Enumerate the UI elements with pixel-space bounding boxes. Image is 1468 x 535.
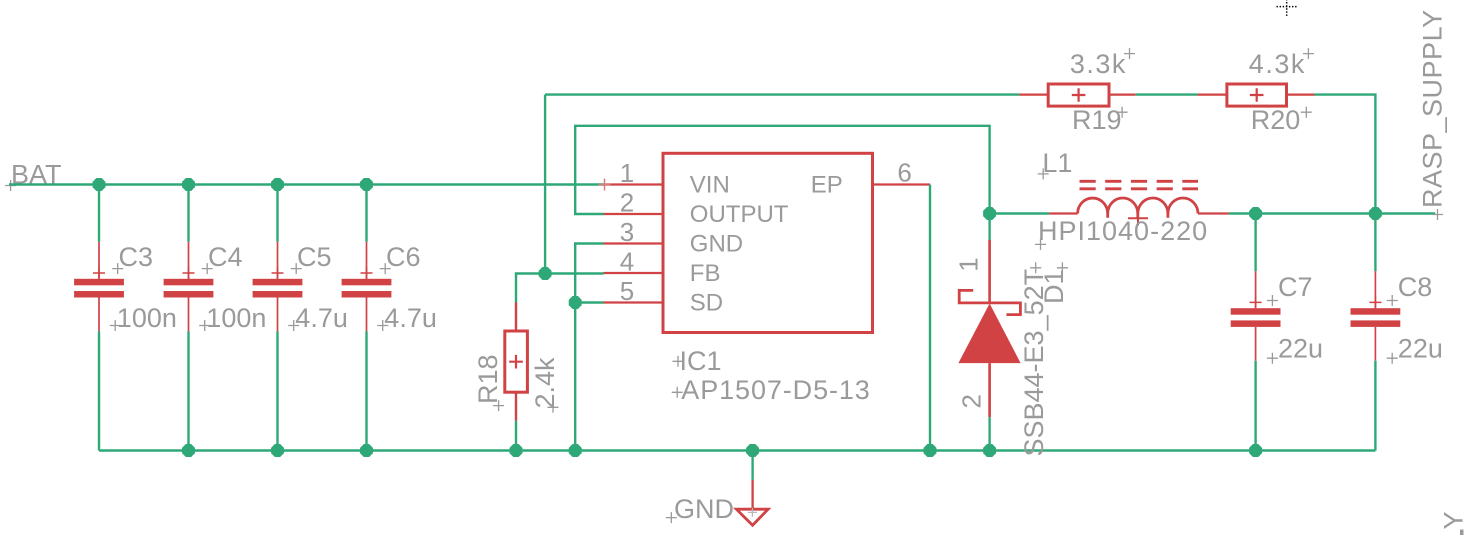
wire OUTPUT to node (up-over): [575, 126, 989, 214]
capacitor C3 value origin cross: [110, 320, 121, 331]
resistor R19 body: [1019, 84, 1135, 106]
wire GND stub: [751, 451, 753, 480]
diode D1 name origin cross: [1057, 262, 1068, 273]
svg-text:HPI1040-220: HPI1040-220: [1038, 216, 1208, 246]
net label GND origin cross: [666, 512, 677, 523]
svg-text:R19: R19: [1072, 105, 1122, 135]
capacitor C7: [1231, 214, 1281, 451]
ground symbol: [736, 480, 768, 525]
resistor R19 value origin cross: [1124, 48, 1135, 59]
svg-text:C7: C7: [1278, 272, 1313, 302]
resistor R18 body: [505, 303, 528, 451]
junction BAT rail x=188.5: [182, 178, 195, 191]
capacitor C8: [1351, 214, 1401, 451]
svg-text:4.7u: 4.7u: [384, 303, 437, 333]
IC1 pin 3 stub: [604, 242, 664, 244]
resistor R20 name origin cross: [1301, 107, 1312, 118]
svg-text:AP1507-D5-13: AP1507-D5-13: [681, 375, 870, 405]
wire inductor to output: [1229, 212, 1436, 214]
junction GND-pin rail: [569, 444, 582, 457]
svg-text:C3: C3: [119, 242, 154, 272]
svg-text:3: 3: [620, 217, 634, 247]
svg-text:SD: SD: [690, 289, 723, 316]
wire BAT horizontal: [9, 183, 604, 185]
svg-text:100n: 100n: [206, 303, 266, 333]
svg-text:C6: C6: [386, 242, 421, 272]
capacitor C7 name origin cross: [1267, 295, 1278, 306]
junction diode bottom rail: [983, 444, 996, 457]
svg-text:5: 5: [620, 276, 634, 306]
IC1 pin 2 stub: [604, 213, 664, 215]
svg-text:22u: 22u: [1398, 333, 1443, 363]
junction BAT rail x=366.5: [360, 178, 373, 191]
svg-text:2.4k: 2.4k: [530, 357, 560, 409]
capacitor C8 name origin cross: [1387, 295, 1398, 306]
capacitor C4: [164, 185, 214, 451]
ground symbol origin cross: [748, 508, 757, 517]
inductor L1: [1049, 181, 1228, 225]
svg-text:1: 1: [620, 158, 634, 188]
IC1 pin 1 endpoint cross: [599, 179, 611, 191]
junction R18 bottom rail: [510, 444, 523, 457]
IC1 pin 5 stub: [604, 301, 664, 303]
junction ground rail x=188.5: [182, 444, 195, 457]
capacitor C3 name origin cross: [112, 263, 123, 274]
svg-text:4: 4: [620, 246, 634, 276]
wire bottom ground rail: [99, 449, 1375, 451]
IC1 pin 1 stub: [604, 183, 664, 185]
net label RASP_SUPPLY origin cross: [1432, 209, 1443, 220]
svg-text:6: 6: [897, 158, 911, 188]
inductor L1 name origin cross: [1038, 168, 1049, 179]
svg-text:2: 2: [620, 187, 634, 217]
svg-text:OUTPUT: OUTPUT: [690, 201, 789, 228]
svg-text:FB: FB: [690, 260, 721, 287]
junction GND rail: [746, 444, 759, 457]
capacitor C6: [342, 185, 392, 451]
junction ground rail x=277.5: [271, 444, 284, 457]
IC1 name origin cross: [673, 356, 684, 367]
svg-text:GND: GND: [690, 230, 743, 257]
svg-text:2: 2: [957, 394, 987, 408]
svg-text:EP: EP: [811, 171, 843, 198]
net label BAT origin cross: [5, 180, 16, 191]
IC1 value origin cross: [672, 387, 683, 398]
wire R19-R20: [1136, 93, 1198, 95]
svg-text:C4: C4: [208, 242, 243, 272]
wire GND pin down to SD and rail: [575, 244, 603, 451]
junction SD node: [569, 296, 582, 309]
capacitor C8 value origin cross: [1387, 353, 1398, 364]
svg-text:Y: Y: [1439, 511, 1468, 530]
capacitor C7 value origin cross: [1267, 353, 1278, 364]
svg-text:RASP_SUPPLY: RASP_SUPPLY: [1418, 9, 1448, 208]
capacitor C4 name origin cross: [202, 263, 213, 274]
wire SD pin link: [575, 301, 603, 303]
svg-text:R18: R18: [473, 354, 503, 404]
svg-text:IC1: IC1: [680, 346, 722, 376]
svg-text:22u: 22u: [1278, 333, 1323, 363]
junction BAT rail x=277.5: [271, 178, 284, 191]
wire node to diode/inductor: [990, 212, 1050, 214]
wire FB pin to divider: [545, 95, 603, 274]
junction C8 node: [1369, 207, 1382, 220]
sheet origin marker (dotted cross): [1277, 0, 1298, 17]
svg-text:R20: R20: [1251, 105, 1301, 135]
capacitor C4 value origin cross: [199, 320, 210, 331]
svg-text:C5: C5: [297, 242, 332, 272]
capacitor C5 value origin cross: [288, 320, 299, 331]
resistor R20 body: [1197, 84, 1314, 106]
diode D1: [958, 214, 1020, 451]
wire R20 output down to node: [1315, 95, 1376, 214]
resistor R19 name origin cross: [1117, 107, 1128, 118]
op-amp/regulator IC1 body: [663, 153, 873, 332]
svg-text:C8: C8: [1398, 272, 1433, 302]
resistor R18 name origin cross: [493, 400, 504, 411]
svg-text:1: 1: [953, 257, 983, 271]
resistor R20 value origin cross: [1303, 48, 1314, 59]
wire top feedback: [545, 93, 1019, 95]
svg-text:4.7u: 4.7u: [295, 303, 348, 333]
svg-text:100n: 100n: [117, 303, 177, 333]
diode D1 value origin cross: [1030, 262, 1041, 273]
resistor R18 value origin cross: [548, 402, 559, 413]
capacitor C6 name origin cross: [380, 263, 391, 274]
capacitor C3: [74, 185, 124, 451]
junction switch node: [983, 207, 996, 220]
svg-text:SSB44-E3_52T: SSB44-E3_52T: [1019, 269, 1049, 457]
junction ground rail x=366.5: [360, 444, 373, 457]
wire EP pin down to rail: [929, 185, 931, 451]
svg-text:VIN: VIN: [690, 171, 730, 198]
IC1 pin 6 stub (EP): [873, 183, 931, 185]
junction C7 bottom rail: [1249, 444, 1262, 457]
inductor L1 value origin cross: [1035, 239, 1046, 250]
svg-text:GND: GND: [674, 494, 734, 524]
net label RASP_SUPPLY (bottom) origin mark: [1460, 530, 1464, 535]
junction EP rail: [924, 444, 937, 457]
capacitor C5 name origin cross: [291, 263, 302, 274]
wire FB to R18 top: [516, 274, 545, 303]
svg-text:4.3k: 4.3k: [1249, 49, 1306, 79]
capacitor C6 value origin cross: [377, 320, 388, 331]
IC1 pin 4 stub: [604, 272, 664, 274]
junction BAT rail x=99: [93, 178, 106, 191]
junction FB node: [539, 267, 552, 280]
capacitor C5: [253, 185, 303, 451]
svg-text:3.3k: 3.3k: [1070, 49, 1127, 79]
junction C7 node: [1249, 207, 1262, 220]
